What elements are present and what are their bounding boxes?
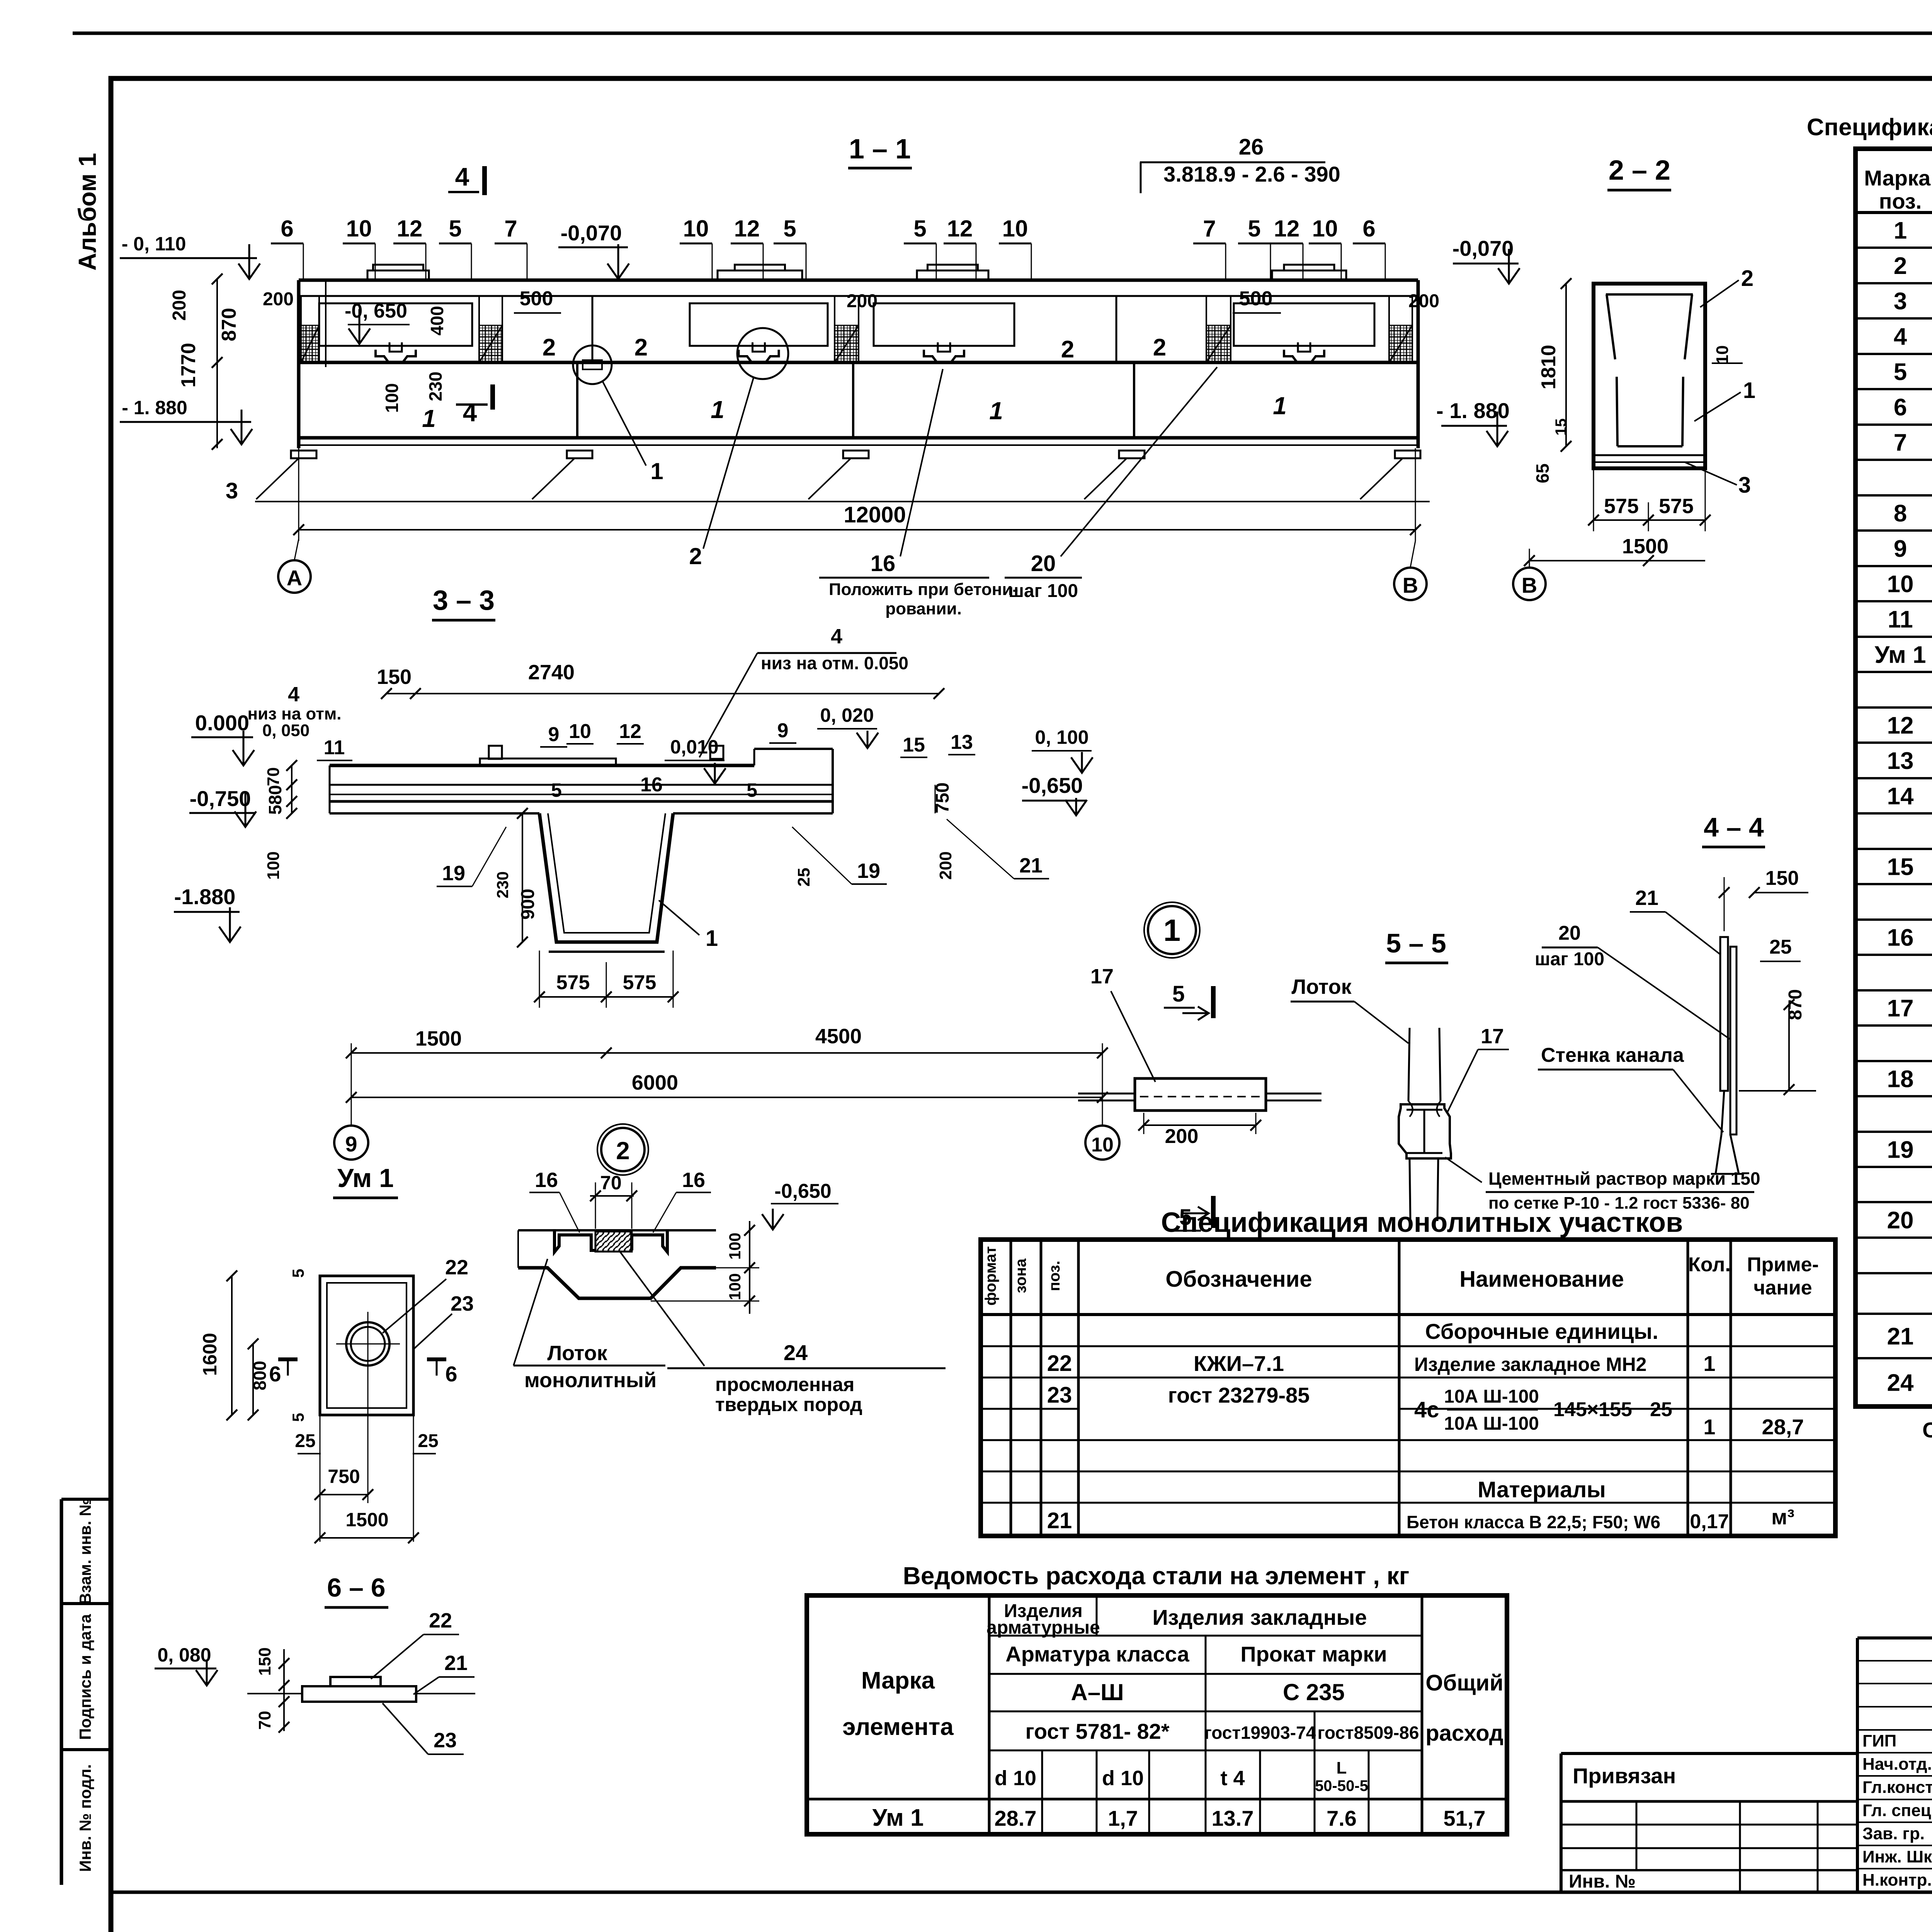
ground line under 1-1 — [255, 501, 1430, 502]
svg-text:5: 5 — [1172, 981, 1185, 1007]
svg-text:23: 23 — [434, 1729, 457, 1752]
svg-text:20: 20 — [1558, 922, 1581, 944]
svg-text:10: 10 — [1312, 216, 1338, 241]
svg-text:4: 4 — [831, 625, 842, 648]
svg-text:5: 5 — [551, 779, 562, 801]
svg-text:d 10: d 10 — [995, 1767, 1036, 1790]
svg-text:10: 10 — [683, 216, 709, 241]
svg-text:Сечения 1-1 ... 3-3 обознач: Сечения 1-1 ... 3-3 обозначены на листе … — [1922, 1418, 1932, 1442]
Um1 circle — [346, 1322, 389, 1366]
svg-text:100: 100 — [726, 1233, 744, 1260]
svg-text:0, 100: 0, 100 — [1035, 726, 1088, 748]
svg-text:12: 12 — [734, 216, 760, 241]
svg-text:1: 1 — [989, 397, 1003, 425]
svg-text:6000: 6000 — [632, 1071, 678, 1094]
svg-text:Цементный раствор марки 150: Цементный раствор марки 150 — [1488, 1168, 1760, 1189]
svg-text:9: 9 — [1894, 536, 1907, 562]
svg-text:арматурные: арматурные — [986, 1617, 1100, 1638]
svg-text:4500: 4500 — [815, 1025, 862, 1048]
big table grid — [1855, 149, 1932, 1406]
svg-text:Кол.: Кол. — [1688, 1253, 1731, 1276]
svg-text:25: 25 — [295, 1431, 315, 1451]
svg-text:- 0, 110: - 0, 110 — [122, 233, 186, 255]
svg-text:150: 150 — [1765, 867, 1799, 889]
svg-text:шаг 100: шаг 100 — [1535, 949, 1604, 969]
2-2 dim 1810 — [1565, 284, 1567, 446]
svg-text:11: 11 — [1888, 606, 1913, 633]
leader 20 шаг 100 — [1061, 367, 1217, 556]
svg-text:А–Ш: А–Ш — [1071, 1679, 1124, 1705]
svg-text:зона: зона — [1012, 1258, 1029, 1293]
svg-text:1: 1 — [1163, 913, 1181, 947]
svg-text:Подпись и дата: Подпись и дата — [76, 1614, 94, 1740]
svg-text:Ум 1: Ум 1 — [872, 1804, 923, 1831]
svg-text:7: 7 — [1203, 216, 1216, 241]
top caps (item 12 covers) — [367, 270, 429, 280]
left margin stamp column — [60, 1499, 63, 1885]
big table rows 14-24 — [1887, 783, 1932, 1396]
svg-text:просмоленная: просмоленная — [715, 1374, 854, 1395]
svg-text:7.6: 7.6 — [1327, 1806, 1357, 1830]
big table rows 1-13 — [1874, 218, 1932, 775]
svg-text:Привязан: Привязан — [1573, 1764, 1676, 1788]
svg-text:500: 500 — [1239, 287, 1273, 310]
svg-text:3: 3 — [226, 478, 238, 503]
svg-text:6 – 6: 6 – 6 — [327, 1573, 385, 1602]
footing pads — [291, 451, 316, 458]
svg-text:17: 17 — [1887, 995, 1914, 1022]
big table header texts — [1864, 166, 1932, 213]
detail circle big (node 2) — [737, 328, 788, 379]
svg-text:400: 400 — [427, 306, 447, 336]
svg-text:25: 25 — [1650, 1398, 1672, 1421]
svg-text:С 235: С 235 — [1283, 1679, 1345, 1705]
title block bottom long line — [111, 1891, 1932, 1894]
svg-text:0, 050: 0, 050 — [262, 721, 310, 740]
svg-text:25: 25 — [1769, 936, 1792, 958]
svg-text:5: 5 — [783, 216, 796, 241]
svg-text:4с: 4с — [1414, 1397, 1439, 1422]
svg-text:Ум 1: Ум 1 — [337, 1163, 394, 1193]
svg-text:70: 70 — [264, 767, 283, 786]
svg-text:2: 2 — [1153, 334, 1166, 361]
svg-text:65: 65 — [1532, 463, 1553, 483]
svg-text:1: 1 — [1703, 1415, 1715, 1439]
svg-text:20: 20 — [1887, 1207, 1914, 1234]
svg-text:10: 10 — [346, 216, 372, 241]
svg-text:-0,650: -0,650 — [774, 1180, 831, 1202]
svg-text:d 10: d 10 — [1102, 1767, 1144, 1790]
svg-text:3: 3 — [1738, 473, 1751, 498]
svg-text:870: 870 — [218, 308, 240, 342]
3-3 dims 1500 4500 — [351, 1052, 1102, 1054]
svg-text:1: 1 — [1703, 1351, 1715, 1376]
trough leader 24 — [620, 1252, 704, 1366]
svg-text:200: 200 — [847, 291, 878, 311]
svg-text:10: 10 — [1713, 345, 1732, 364]
svg-text:11: 11 — [324, 736, 345, 759]
svg-text:28.7: 28.7 — [995, 1806, 1037, 1830]
svg-text:чание: чание — [1753, 1277, 1812, 1299]
axis circle B under 2-2 — [1513, 568, 1546, 600]
svg-text:Гл. спец.: Гл. спец. — [1862, 1801, 1932, 1820]
Um1 section 6 markers — [278, 1357, 298, 1361]
svg-text:24: 24 — [1887, 1370, 1914, 1396]
svg-text:18: 18 — [1887, 1066, 1914, 1093]
svg-text:1: 1 — [706, 926, 718, 951]
svg-text:Марка,: Марка, — [1864, 166, 1932, 190]
svg-text:12: 12 — [1274, 216, 1300, 241]
svg-text:-0,070: -0,070 — [1452, 236, 1514, 260]
leader 16 Положить при бетонировании — [900, 369, 943, 556]
svg-text:7: 7 — [1894, 430, 1907, 456]
top edge line of scanned sheet — [73, 32, 1932, 35]
svg-text:Гл.конст-: Гл.конст- — [1862, 1778, 1932, 1797]
svg-text:230: 230 — [493, 871, 512, 898]
svg-text:Наименование: Наименование — [1459, 1267, 1624, 1292]
svg-text:9: 9 — [345, 1132, 357, 1156]
3-3 leader 1 at trough — [659, 900, 699, 935]
svg-text:элемента: элемента — [842, 1714, 954, 1740]
svg-text:3 – 3: 3 – 3 — [433, 585, 495, 616]
svg-text:500: 500 — [520, 287, 553, 310]
3-3 axis circles 9 2 10 — [334, 1126, 368, 1160]
svg-text:1600: 1600 — [199, 1333, 221, 1376]
steel table grid — [807, 1595, 1507, 1834]
svg-text:6: 6 — [281, 216, 293, 241]
svg-text:2: 2 — [689, 543, 702, 569]
svg-text:Общий: Общий — [1425, 1670, 1503, 1696]
svg-text:1 – 1: 1 – 1 — [849, 134, 911, 165]
svg-text:Сборочные единицы.: Сборочные единицы. — [1425, 1319, 1658, 1344]
svg-text:Зав. гр.: Зав. гр. — [1862, 1824, 1925, 1843]
svg-text:9: 9 — [777, 719, 789, 742]
deck joints in 1-1 — [592, 296, 594, 362]
svg-text:1: 1 — [1894, 218, 1907, 244]
svg-text:3: 3 — [1894, 288, 1907, 315]
2-2 inner channel walls — [1606, 293, 1693, 296]
svg-text:230: 230 — [425, 372, 446, 401]
svg-text:25: 25 — [418, 1431, 438, 1451]
svg-text:1500: 1500 — [1622, 535, 1668, 558]
svg-text:51,7: 51,7 — [1444, 1806, 1486, 1830]
svg-text:9: 9 — [548, 723, 560, 746]
svg-text:Инв. №: Инв. № — [1569, 1871, 1636, 1892]
1-1 wall bottom lines — [299, 436, 1418, 440]
svg-text:4: 4 — [1894, 323, 1907, 350]
svg-text:17: 17 — [1481, 1025, 1504, 1048]
svg-text:21: 21 — [1047, 1508, 1072, 1533]
svg-text:Положить при бетони-: Положить при бетони- — [829, 580, 1018, 599]
svg-text:19: 19 — [1887, 1137, 1914, 1163]
svg-text:Марка: Марка — [861, 1667, 935, 1694]
svg-text:25: 25 — [794, 868, 813, 887]
svg-text:ГИП: ГИП — [1862, 1731, 1896, 1750]
svg-text:21: 21 — [1635, 886, 1658, 910]
svg-text:2: 2 — [543, 334, 556, 361]
left vertical dim chain 200/870/1770 — [216, 279, 218, 448]
svg-text:1: 1 — [650, 458, 663, 484]
4-4 wall plates — [1720, 937, 1728, 1091]
svg-text:Приме-: Приме- — [1747, 1253, 1819, 1276]
svg-text:2: 2 — [1061, 336, 1074, 363]
svg-text:12: 12 — [397, 216, 423, 241]
svg-text:12000: 12000 — [844, 502, 906, 527]
2-2 outer box — [1594, 284, 1705, 468]
svg-text:12: 12 — [1887, 713, 1914, 739]
svg-text:6: 6 — [1362, 216, 1375, 241]
detail: embedded plate with 200 dim — [1078, 1093, 1136, 1095]
svg-text:- 1. 880: - 1. 880 — [1436, 398, 1510, 423]
svg-text:100: 100 — [726, 1273, 744, 1300]
5-5 cement note — [1445, 1157, 1482, 1182]
svg-text:70: 70 — [600, 1172, 622, 1194]
svg-text:Обозначение: Обозначение — [1165, 1267, 1312, 1292]
svg-text:23: 23 — [451, 1292, 474, 1315]
svg-text:575: 575 — [623, 971, 656, 994]
3-3 bottom dims 575 575 — [539, 996, 673, 998]
svg-text:расход: расход — [1425, 1721, 1503, 1746]
svg-text:4: 4 — [288, 683, 299, 706]
svg-text:900: 900 — [518, 889, 538, 920]
detail circle small (node 1) — [573, 345, 612, 384]
svg-text:12: 12 — [947, 216, 973, 241]
svg-text:5: 5 — [289, 1269, 307, 1277]
3-3 right curb — [753, 749, 755, 765]
svg-text:гост 5781- 82*: гост 5781- 82* — [1025, 1719, 1169, 1743]
svg-text:22: 22 — [445, 1256, 468, 1279]
svg-text:5: 5 — [449, 216, 461, 241]
svg-text:L: L — [1337, 1759, 1347, 1777]
wall joints in 1-1 — [576, 362, 578, 438]
svg-text:150: 150 — [377, 665, 412, 689]
3-3 left vertical dims — [291, 765, 293, 813]
svg-text:10: 10 — [1887, 571, 1914, 598]
svg-text:200: 200 — [1408, 291, 1439, 311]
svg-text:1: 1 — [1743, 378, 1755, 403]
privyazan block — [1561, 1753, 1857, 1892]
svg-text:150: 150 — [255, 1647, 274, 1675]
3-3 central trough — [539, 813, 673, 942]
svg-text:Изделия закладные: Изделия закладные — [1152, 1605, 1367, 1629]
svg-text:8: 8 — [1894, 500, 1907, 527]
svg-text:5: 5 — [913, 216, 926, 241]
svg-text:16: 16 — [871, 551, 896, 576]
svg-text:В: В — [1403, 573, 1418, 597]
5-5 column with I-beam — [1408, 1028, 1410, 1221]
svg-text:КЖИ–7.1: КЖИ–7.1 — [1194, 1351, 1284, 1376]
svg-text:Нач.отд.: Нач.отд. — [1862, 1755, 1932, 1774]
svg-text:2: 2 — [616, 1137, 630, 1165]
svg-text:низ на отм. 0.050: низ на отм. 0.050 — [761, 653, 908, 673]
svg-text:1: 1 — [422, 405, 436, 432]
svg-text:21: 21 — [1887, 1323, 1914, 1350]
trough cap plates item 16 — [554, 1230, 595, 1252]
svg-text:-0,650: -0,650 — [1022, 773, 1083, 798]
lotok openings in 1-1 — [319, 303, 472, 346]
svg-text:0,010: 0,010 — [670, 736, 718, 758]
svg-text:24: 24 — [784, 1340, 808, 1365]
svg-text:1500: 1500 — [415, 1027, 462, 1050]
svg-text:Лоток: Лоток — [547, 1342, 607, 1365]
svg-text:Материалы: Материалы — [1478, 1477, 1606, 1502]
svg-text:1,7: 1,7 — [1108, 1806, 1138, 1830]
svg-text:поз.: поз. — [1046, 1260, 1063, 1291]
svg-text:16: 16 — [640, 774, 663, 796]
svg-text:13.7: 13.7 — [1212, 1806, 1254, 1830]
svg-text:6: 6 — [445, 1362, 457, 1386]
trough detail (Лоток монолитный) — [518, 1229, 716, 1231]
svg-text:13: 13 — [951, 731, 973, 753]
svg-text:- 1. 880: - 1. 880 — [122, 397, 187, 418]
axis circle B (right of 1-1) — [1394, 568, 1427, 600]
svg-text:-0, 650: -0, 650 — [345, 300, 407, 322]
svg-text:19: 19 — [442, 862, 465, 885]
svg-text:16: 16 — [1887, 925, 1914, 951]
svg-text:2740: 2740 — [528, 661, 575, 684]
steel table texts — [842, 1601, 1503, 1831]
svg-text:Инв. № подл.: Инв. № подл. — [76, 1764, 94, 1872]
svg-text:Лоток: Лоток — [1291, 975, 1352, 998]
svg-text:15: 15 — [1887, 854, 1914, 881]
svg-text:19: 19 — [857, 859, 880, 883]
svg-text:гост 23279-85: гост 23279-85 — [1168, 1383, 1310, 1407]
svg-text:20: 20 — [1031, 551, 1056, 576]
signature table — [1857, 1638, 1932, 1892]
svg-text:750: 750 — [328, 1466, 360, 1487]
svg-text:Инж. Шк.: Инж. Шк. — [1862, 1847, 1932, 1866]
monolithic trough outline — [518, 1268, 716, 1298]
svg-text:твердых пород: твердых пород — [715, 1394, 862, 1415]
monolith table texts — [982, 1246, 1819, 1533]
svg-text:-0,750: -0,750 — [190, 786, 251, 811]
svg-text:2: 2 — [1741, 266, 1753, 291]
3-3 dim 6000 — [351, 1097, 1102, 1098]
svg-text:3.818.9 - 2.6 - 390: 3.818.9 - 2.6 - 390 — [1163, 162, 1340, 186]
svg-text:7: 7 — [504, 216, 517, 241]
svg-text:Взам. инв. №: Взам. инв. № — [76, 1498, 94, 1605]
svg-text:15: 15 — [1553, 418, 1570, 436]
svg-text:гост19903-74: гост19903-74 — [1204, 1723, 1316, 1743]
svg-text:13: 13 — [1887, 748, 1914, 774]
svg-text:м³: м³ — [1771, 1505, 1794, 1529]
hatched piers in 1-1 — [301, 296, 319, 362]
2-2 leaders 2,1,3 — [1700, 280, 1739, 307]
svg-text:Бетон класса В 22,5; F50; W6: Бетон класса В 22,5; F50; W6 — [1406, 1512, 1660, 1532]
svg-text:Стенка канала: Стенка канала — [1541, 1044, 1684, 1066]
svg-text:575: 575 — [1659, 495, 1694, 518]
svg-text:-1.880: -1.880 — [174, 884, 236, 909]
svg-text:Ведомость расхода стали на: Ведомость расхода стали на элемент , кг — [903, 1562, 1410, 1590]
svg-text:22: 22 — [429, 1609, 452, 1632]
svg-text:6: 6 — [269, 1362, 281, 1386]
svg-text:-0,070: -0,070 — [561, 221, 622, 245]
svg-text:50-50-5: 50-50-5 — [1315, 1777, 1368, 1794]
svg-text:0, 020: 0, 020 — [820, 704, 874, 726]
svg-text:Ум 1: Ум 1 — [1874, 642, 1926, 668]
svg-text:23: 23 — [1047, 1383, 1072, 1408]
3-3 anchors at top (item 9 pins) — [489, 746, 502, 759]
svg-text:26: 26 — [1239, 134, 1264, 160]
svg-text:5: 5 — [1248, 216, 1260, 241]
svg-text:28,7: 28,7 — [1762, 1415, 1804, 1439]
svg-text:4 – 4: 4 – 4 — [1704, 812, 1764, 842]
svg-text:2: 2 — [1894, 253, 1907, 279]
svg-text:Изделие закладное МН2: Изделие закладное МН2 — [1414, 1354, 1647, 1375]
svg-text:Альбом 1: Альбом 1 — [73, 153, 101, 271]
svg-text:0,17: 0,17 — [1690, 1510, 1729, 1533]
svg-text:10А Ш-100: 10А Ш-100 — [1444, 1413, 1539, 1434]
svg-text:22: 22 — [1047, 1351, 1072, 1376]
svg-text:100: 100 — [264, 851, 283, 879]
svg-text:t 4: t 4 — [1220, 1767, 1245, 1790]
svg-text:575: 575 — [556, 971, 590, 994]
svg-text:формат: формат — [982, 1246, 999, 1306]
svg-text:4: 4 — [463, 398, 477, 427]
svg-text:5: 5 — [289, 1413, 307, 1422]
svg-text:1: 1 — [711, 396, 724, 423]
2-2 dim 1500 — [1529, 560, 1705, 561]
svg-text:поз.: поз. — [1879, 189, 1922, 213]
svg-text:гост8509-86: гост8509-86 — [1318, 1723, 1419, 1743]
axis circle A — [278, 560, 311, 593]
svg-text:по сетке Р-10 - 1.2 гост 533: по сетке Р-10 - 1.2 гост 5336- 80 — [1488, 1194, 1750, 1213]
svg-text:0.000: 0.000 — [195, 711, 249, 735]
1-1 deck/wall boundary — [299, 361, 1418, 364]
svg-text:В: В — [1522, 573, 1537, 597]
svg-text:5: 5 — [1179, 1205, 1192, 1230]
svg-text:10: 10 — [1091, 1134, 1114, 1156]
svg-text:6: 6 — [1894, 394, 1907, 421]
svg-text:17: 17 — [1090, 965, 1114, 988]
svg-text:12: 12 — [619, 720, 641, 743]
svg-text:14: 14 — [1887, 783, 1914, 810]
svg-text:10А Ш-100: 10А Ш-100 — [1444, 1386, 1539, 1407]
svg-text:10: 10 — [1002, 216, 1028, 241]
svg-text:1: 1 — [1273, 392, 1287, 420]
monolith table grid — [981, 1240, 1835, 1536]
svg-text:4: 4 — [455, 162, 469, 191]
svg-text:21: 21 — [444, 1651, 468, 1675]
svg-text:5: 5 — [1894, 359, 1907, 386]
2-2 dim 575 575 — [1594, 519, 1705, 521]
svg-text:Прокат марки: Прокат марки — [1240, 1642, 1387, 1666]
svg-text:21: 21 — [1019, 854, 1043, 877]
svg-text:580: 580 — [265, 785, 285, 815]
svg-text:5 – 5: 5 – 5 — [1386, 928, 1446, 958]
svg-text:200: 200 — [263, 289, 294, 310]
svg-text:200: 200 — [1165, 1125, 1199, 1148]
1-1 deck top lines — [299, 279, 1418, 282]
svg-text:1770: 1770 — [177, 343, 200, 388]
svg-text:Арматура класса: Арматура класса — [1005, 1642, 1189, 1666]
svg-text:200: 200 — [169, 290, 190, 321]
svg-text:Н.контр.: Н.контр. — [1862, 1871, 1932, 1889]
svg-text:145×155: 145×155 — [1553, 1398, 1632, 1421]
detail circle 1 — [1148, 906, 1196, 954]
svg-text:2: 2 — [634, 334, 648, 361]
svg-text:16: 16 — [535, 1168, 558, 1192]
svg-text:10: 10 — [569, 720, 591, 743]
svg-text:5: 5 — [747, 779, 757, 801]
svg-text:16: 16 — [682, 1168, 705, 1192]
3-3 dim 900 — [522, 813, 523, 942]
Um1 plan rects — [320, 1276, 413, 1415]
svg-text:1810: 1810 — [1537, 345, 1560, 389]
dim 12000 — [299, 529, 1415, 531]
svg-text:70: 70 — [255, 1711, 274, 1730]
svg-text:монолитный: монолитный — [524, 1369, 656, 1392]
